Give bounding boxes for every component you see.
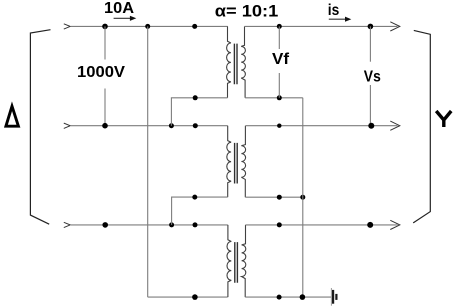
ground symbol xyxy=(331,288,336,306)
node dot neutral bus bottom junction (302.4,297.1) xyxy=(300,294,306,300)
svg-text:Vf: Vf xyxy=(272,51,290,68)
transformer T2 secondary winding xyxy=(241,126,245,198)
wire phase b (middle wye line) xyxy=(245,125,397,127)
wire T2 secondary bottom to neutral bus xyxy=(245,196,302,198)
wire 1000V measurement upper xyxy=(104,26,106,59)
node dot bottom delta terminal (194.9,297.1) xyxy=(192,294,198,300)
svg-text:α= 10:1: α= 10:1 xyxy=(215,2,278,21)
svg-text:Vs: Vs xyxy=(364,68,381,85)
right bracket (wye output side) xyxy=(413,30,430,223)
node dot b terminal (279.3,125.7) xyxy=(277,124,281,128)
label delta xyxy=(6,106,19,126)
wire phase a (top wye line) xyxy=(245,25,398,27)
transformer T1 primary winding xyxy=(227,26,231,97)
svg-text:10A: 10A xyxy=(104,0,134,17)
node dot C-T2 return (171.6,224.9) xyxy=(169,222,174,227)
left bracket (delta input side) xyxy=(30,30,50,225)
wire phase C (bottom delta line) xyxy=(71,224,228,226)
node dot T2 primary lead terminal (194.8,197.1) xyxy=(192,195,197,200)
wire T1 primary return to phase B xyxy=(171,98,227,126)
transformer T2 core xyxy=(235,143,238,184)
wire delta closure A-to-T3 (long vertical) xyxy=(147,26,149,297)
node dot B-T1 return (171.4,125.7) xyxy=(169,123,174,128)
output arrow phase b xyxy=(390,121,400,130)
svg-text:is: is xyxy=(328,2,340,19)
node dot a-Vs (370.4,26.4) xyxy=(368,24,374,30)
wire T1 secondary bottom to neutral bus xyxy=(245,97,303,99)
wire T2 primary return to phase C xyxy=(172,197,228,225)
node dot a-Vf (279.3,26.4) xyxy=(277,24,282,29)
wire phase A (top delta line) xyxy=(71,25,228,27)
node dot neutral terminal (279.1,297.1) xyxy=(277,295,282,300)
transformer T3 primary winding xyxy=(227,225,231,297)
node dot C-1000V column (105.2,224.9) xyxy=(102,222,108,228)
transformer T3 core xyxy=(235,242,238,283)
node dot T2 secondary terminal (279.3,197.2) xyxy=(277,195,282,200)
wire phase B (middle delta line) xyxy=(71,125,228,127)
node dot A-deltawire (147.7,26.4) xyxy=(145,24,150,29)
arrow is current direction xyxy=(329,18,346,20)
svg-text:1000V: 1000V xyxy=(77,64,125,81)
node dot b-Vs (371.3,125.7) xyxy=(368,123,374,129)
input arrow phase B xyxy=(64,123,70,128)
wire Vf measurement lower xyxy=(278,73,280,98)
node dot neutral bus T2 junction (302.8,197.2) xyxy=(300,195,305,200)
node dot c right terminal (370.2,224.9) xyxy=(367,222,373,228)
node dot C terminal (195,224.9) xyxy=(193,222,198,227)
node dot T1 primary lead terminal (195.2,97.8) xyxy=(193,95,198,100)
node dot A-1000V (105,26.4) xyxy=(102,24,108,30)
output arrow phase c xyxy=(390,220,400,229)
transformer T1 secondary winding xyxy=(241,26,245,97)
label Y xyxy=(436,111,451,127)
wire Vs measurement upper xyxy=(369,26,371,61)
output arrow phase a xyxy=(390,22,400,31)
wire bottom delta segment xyxy=(148,296,228,298)
node dot B terminal (195.3,125.7) xyxy=(193,123,198,128)
transformer T1 core xyxy=(234,44,237,85)
input arrow phase A xyxy=(64,24,70,29)
node dot B-1000V (105,125.7) xyxy=(102,123,108,129)
transformer T3 secondary winding xyxy=(242,225,246,297)
input arrow phase C xyxy=(64,222,70,227)
node dot c terminal (279.3,224.9) xyxy=(277,222,282,227)
node dot A terminal (194.7,26.4) xyxy=(192,24,197,29)
wire T3 secondary bottom to ground xyxy=(245,296,331,298)
wire Vf measurement upper xyxy=(278,26,280,49)
wire Vs measurement lower xyxy=(369,85,371,126)
wire phase c (bottom wye line) xyxy=(246,224,398,226)
arrow 10A current direction xyxy=(114,17,131,19)
wire neutral bus vertical xyxy=(302,98,304,297)
node dot Vf bottom (279.3,97.8) xyxy=(277,95,282,100)
transformer T2 primary winding xyxy=(227,126,231,197)
wire 1000V measurement lower xyxy=(104,89,106,126)
